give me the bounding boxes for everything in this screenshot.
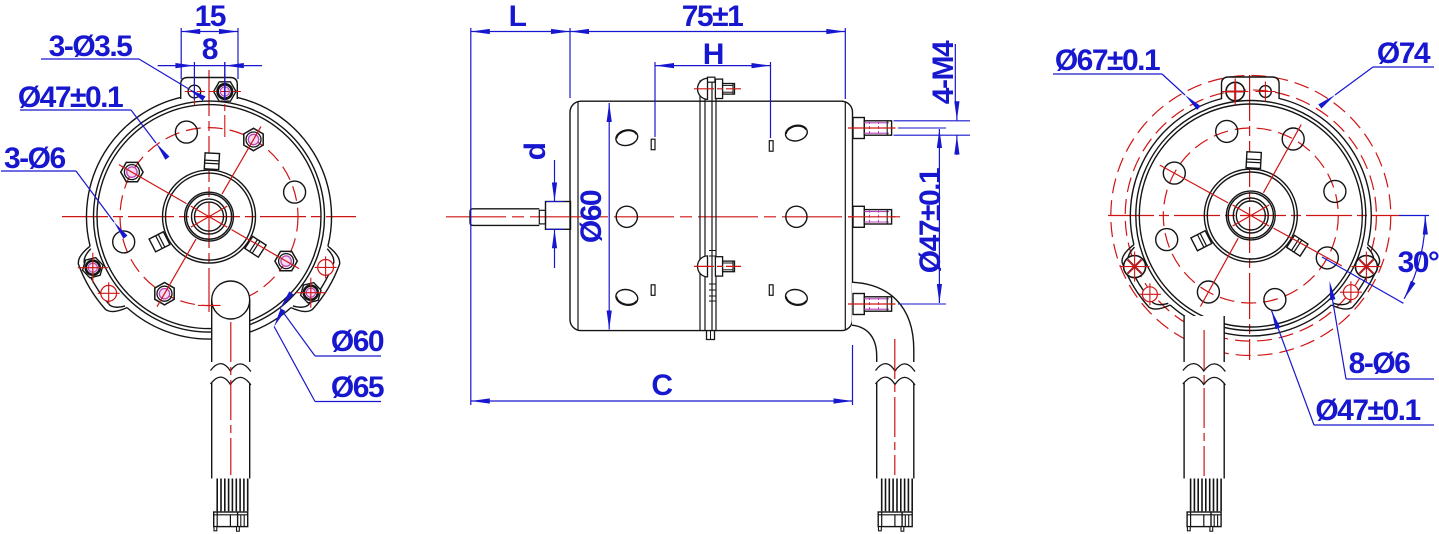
- left view vent hole at 16 deg: [284, 181, 306, 203]
- stator band ticks: [709, 283, 716, 285]
- right view dashed circle Ø67: [1125, 90, 1376, 341]
- right view top tab phillips screw: [1226, 82, 1244, 100]
- right view hole 8-Ø6 at 241 deg: [1197, 281, 1219, 303]
- vent ellipse top-right: [784, 123, 809, 143]
- right view red spoke at 331 deg: [1274, 228, 1342, 266]
- dim 75 line: [570, 31, 845, 33]
- left view cable break squiggle lower: [211, 377, 251, 385]
- right view hub circle r24.4: [1226, 191, 1275, 240]
- vent hole mid-right: [786, 206, 807, 227]
- left view cable break squiggle upper: [211, 364, 251, 372]
- right view hub circle r17.5: [1233, 198, 1268, 233]
- svg-text:L: L: [509, 0, 527, 33]
- right view wire bundle: [1190, 479, 1192, 512]
- left view hub slot at 87 deg: [204, 153, 219, 170]
- svg-text:Ø67±0.1: Ø67±0.1: [1055, 44, 1160, 77]
- svg-text:30°: 30°: [1398, 246, 1439, 279]
- left view lower-right ear hex bolt: [301, 283, 321, 303]
- left view outer flange circle: [86, 97, 331, 339]
- vent hole mid-left: [616, 206, 637, 227]
- right view lower-left screw hole: [1142, 287, 1157, 302]
- left view top ear hex bolt: [214, 82, 236, 101]
- right view lower-left ear bump: [1122, 245, 1170, 309]
- middle cable red centerline: [894, 339, 896, 475]
- left view lower-left ear hex bolt: [83, 258, 103, 278]
- middle body rounded rect: [570, 101, 853, 330]
- svg-text:Ø47±0.1: Ø47±0.1: [18, 81, 123, 114]
- left view red spoke at 330 deg: [232, 230, 300, 269]
- left view cable tube left edge: [211, 300, 213, 362]
- left view top ear small hole 3-Ø3.5: [188, 85, 201, 98]
- dim L ext lines: [470, 28, 472, 405]
- stator band top tip: [707, 77, 715, 82]
- left view hub circle r22.6: [186, 194, 231, 239]
- dim 30deg blue horizontal ext: [1399, 215, 1429, 217]
- left view top ear red dash overlay: [185, 91, 242, 93]
- right view red vertical centerline: [1249, 75, 1251, 360]
- svg-text:75±1: 75±1: [682, 0, 743, 33]
- dim H ext lines: [654, 62, 656, 137]
- right view red spoke at 61 deg: [1263, 125, 1301, 193]
- right view lower-right ear bump: [1331, 245, 1379, 309]
- svg-text:d: d: [519, 143, 552, 160]
- dim C line: [471, 400, 853, 402]
- right view hub circle r43.5: [1207, 172, 1294, 259]
- dim 4-M4 arrows: [956, 102, 958, 120]
- right view hole 8-Ø6 at 151 deg: [1163, 162, 1185, 184]
- left view center asterisk arm 150 deg: [191, 206, 227, 227]
- right view body circle r111.5: [1139, 104, 1362, 327]
- left view hub circle r43.5: [166, 173, 253, 260]
- dim 8 line: [158, 65, 262, 67]
- right view hub slot at 327 deg: [1287, 235, 1308, 256]
- left view lower-left ear screw hole: [101, 285, 117, 301]
- middle body right seam line: [844, 102, 846, 331]
- slot bottom-right: [769, 285, 773, 296]
- left view hex nut at 150 deg: [121, 162, 143, 181]
- svg-text:3-Ø3.5: 3-Ø3.5: [49, 30, 133, 63]
- right view red spoke at 241 deg: [1200, 238, 1238, 306]
- label Ø65 leader: [274, 327, 315, 402]
- right view lower-right phillips screw: [1355, 256, 1377, 278]
- left view top ear red center dash: [185, 91, 242, 93]
- left view red spoke at 240 deg: [157, 239, 196, 307]
- stator through-bolt top: [698, 78, 708, 99]
- right view top tab small hole: [1260, 86, 1272, 98]
- left view cable red centerline: [230, 322, 232, 475]
- vent ellipse bottom-right: [784, 288, 809, 308]
- dim C ext right: [852, 345, 854, 405]
- vent ellipse bottom-left: [614, 288, 639, 308]
- right view hole 8-Ø6 at 106 deg: [1216, 120, 1238, 142]
- left view vent hole at 196.5 deg: [113, 231, 135, 253]
- dim 75 ext line right: [844, 28, 846, 99]
- right view dashed circle Ø74: [1111, 76, 1391, 356]
- dim L line: [471, 31, 570, 33]
- left view gland center tick: [198, 304, 221, 306]
- right view hub circle r46.5: [1204, 169, 1297, 262]
- dim H line: [655, 65, 771, 67]
- left view lower-left ear bump: [78, 246, 127, 311]
- left view hub slot at 327 deg: [245, 236, 266, 257]
- right view center asterisk arm 30 deg: [1233, 205, 1269, 226]
- shaft collar: [546, 202, 571, 230]
- svg-text:Ø60: Ø60: [331, 325, 384, 358]
- middle cable tube: [876, 383, 878, 479]
- left view lower-right ear bump: [291, 246, 340, 311]
- terminal stud bottom: [853, 294, 864, 315]
- stator through-bolt bottom: [698, 256, 708, 277]
- right view cable red centerline: [1203, 330, 1205, 476]
- left view body circle r112: [97, 105, 321, 329]
- left view hub slot at 207 deg: [149, 232, 170, 252]
- middle view wire bundle: [881, 479, 883, 512]
- right view hole 8-Ø6 at 61 deg: [1282, 128, 1304, 150]
- left view hub circle r17.5: [192, 199, 227, 234]
- right view cable tube white fill: [1184, 316, 1224, 534]
- right view hole 8-Ø6 at 331 deg: [1316, 247, 1338, 269]
- middle cable break squiggle lower: [876, 377, 916, 385]
- dim 15 line: [181, 31, 238, 33]
- svg-text:Ø60: Ø60: [575, 190, 608, 243]
- right view red spoke at 151 deg: [1160, 165, 1228, 203]
- dim d arrows: [554, 160, 556, 202]
- svg-text:8-Ø6: 8-Ø6: [1349, 347, 1411, 380]
- right view cable tube edges: [1183, 316, 1185, 362]
- left view hex nut at 330 deg: [275, 251, 297, 270]
- svg-text:3-Ø6: 3-Ø6: [4, 142, 66, 175]
- svg-text:Ø74: Ø74: [1377, 37, 1431, 70]
- label Ø60 leader: [280, 308, 315, 356]
- middle cable elbow: [852, 282, 914, 362]
- left view red horizontal centerline: [62, 216, 356, 218]
- left view connector: [214, 512, 248, 527]
- right view hole 8-Ø6 at 286 deg: [1264, 289, 1286, 311]
- dim 15 extension lines: [180, 28, 182, 79]
- dim Ø47 middle line: [938, 129, 940, 303]
- svg-text:Ø65: Ø65: [331, 371, 384, 404]
- left view red spoke at 60 deg: [222, 127, 261, 195]
- right view hole 8-Ø6 at 196 deg: [1156, 229, 1178, 251]
- right view hub circle r14.5: [1236, 201, 1265, 230]
- middle body left seam line: [577, 102, 579, 331]
- dim 30deg arc: [1404, 216, 1425, 299]
- left view cable tube right edge: [249, 300, 251, 362]
- middle view connector: [878, 512, 912, 527]
- svg-text:Ø47±0.1: Ø47±0.1: [914, 168, 947, 273]
- left view cable tube white fill: [212, 301, 250, 534]
- vent ellipse top-left: [614, 128, 639, 148]
- left view hub circle r46.5: [163, 170, 256, 263]
- terminal stud top: [853, 118, 864, 139]
- shaft main: [470, 209, 539, 226]
- right view hub slot at 207 deg: [1191, 231, 1212, 251]
- svg-text:8: 8: [202, 33, 218, 66]
- left view hex nut at 60 deg: [244, 128, 263, 150]
- svg-text:15: 15: [195, 0, 226, 33]
- left view top ear tab: [181, 78, 238, 100]
- terminal stud middle: [853, 206, 864, 227]
- dim 30deg angled line: [1322, 257, 1403, 303]
- right view connector: [1187, 512, 1221, 527]
- slot bottom-left: [651, 285, 655, 296]
- right view cable break squiggle upper: [1183, 364, 1226, 372]
- right view bolt circle Ø47 dashed: [1163, 128, 1338, 303]
- right view lower-right screw hole: [1343, 285, 1358, 300]
- right view red horizontal centerline: [1108, 215, 1399, 217]
- right view hub circle r22.6: [1228, 193, 1273, 238]
- left view lower-right ear screw hole: [318, 260, 334, 276]
- slot top-left: [651, 139, 655, 150]
- svg-text:C: C: [651, 369, 672, 402]
- svg-text:Ø47±0.1: Ø47±0.1: [1315, 394, 1420, 427]
- right view top ear tab: [1222, 77, 1280, 99]
- svg-text:H: H: [703, 38, 723, 71]
- right view body circle r115: [1136, 101, 1366, 331]
- stator band lines: [699, 80, 701, 330]
- left view bolt circle Ø47 dashed red: [120, 128, 298, 306]
- left view top ear bolt red vertical centerline: [224, 74, 226, 137]
- shaft neck: [539, 210, 545, 224]
- right view center asterisk arm 150 deg: [1233, 205, 1269, 226]
- left view vent hole at 105 deg: [175, 121, 197, 143]
- right view cable break squiggle lower: [1183, 377, 1226, 385]
- left view wire bundle: [216, 479, 218, 512]
- right view hub slot at 87 deg: [1246, 152, 1261, 169]
- stator band bottom stub: [707, 331, 715, 340]
- left view hub circle r14.5: [195, 202, 224, 231]
- middle cable break squiggle upper: [876, 364, 916, 372]
- left view top ear blue ext overlay: [224, 62, 226, 100]
- left view body circle r115.5: [94, 101, 325, 332]
- middle view red main centerline: [446, 216, 900, 218]
- left view red vertical centerline: [208, 70, 210, 312]
- right view lower-left phillips screw: [1124, 256, 1146, 278]
- left view cable gland circle: [212, 281, 250, 319]
- right view outer flange circle: [1130, 99, 1371, 336]
- left view hub circle r24.4: [185, 192, 234, 241]
- right view hole 8-Ø6 at 16 deg: [1324, 180, 1346, 202]
- left view center asterisk arm 30 deg: [191, 206, 227, 227]
- dim 8 extension lines: [193, 62, 195, 100]
- left view hex nut at 240 deg: [155, 283, 174, 305]
- slot top-right: [769, 141, 773, 152]
- dim Ø60 line: [608, 103, 610, 330]
- left view red spoke at 150 deg: [119, 165, 187, 204]
